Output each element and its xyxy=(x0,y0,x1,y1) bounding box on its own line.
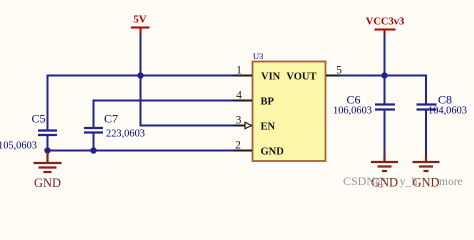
svg-text:1: 1 xyxy=(236,65,242,77)
svg-text:106,0603: 106,0603 xyxy=(333,106,372,117)
svg-text:2: 2 xyxy=(235,140,241,152)
svg-text:C8: C8 xyxy=(438,93,452,107)
svg-text:GND: GND xyxy=(261,147,285,158)
svg-text:more: more xyxy=(439,176,463,188)
svg-text:CSDN@: CSDN@ xyxy=(343,174,386,188)
svg-text:GND: GND xyxy=(34,176,61,190)
svg-text:VCC3v3: VCC3v3 xyxy=(366,17,405,28)
svg-text:104,0603: 104,0603 xyxy=(428,106,467,117)
svg-text:5: 5 xyxy=(336,65,342,77)
svg-text:y_h: y_h xyxy=(400,174,418,188)
svg-text:5V: 5V xyxy=(133,14,147,26)
svg-text:EN: EN xyxy=(261,122,276,133)
svg-text:VIN: VIN xyxy=(261,72,281,83)
svg-text:223,0603: 223,0603 xyxy=(106,129,145,140)
svg-text:105,0603: 105,0603 xyxy=(0,141,37,152)
svg-text:U3: U3 xyxy=(253,51,263,61)
svg-text:C7: C7 xyxy=(104,112,118,126)
svg-text:BP: BP xyxy=(261,97,275,108)
svg-text:3: 3 xyxy=(236,115,242,127)
svg-text:4: 4 xyxy=(236,90,242,102)
svg-text:VOUT: VOUT xyxy=(286,72,316,83)
svg-text:C5: C5 xyxy=(32,112,46,126)
svg-text:C6: C6 xyxy=(347,93,361,107)
